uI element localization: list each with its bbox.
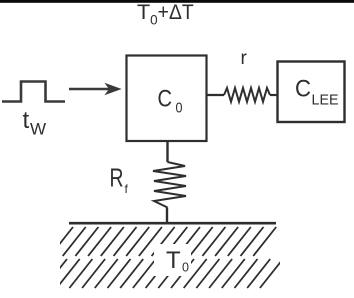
svg-text:T: T — [166, 247, 181, 274]
label CLEE — [295, 76, 339, 109]
wire C0 bottom to resistor Rf — [166, 141, 168, 162]
wire Rf to ground — [166, 208, 168, 224]
svg-text:C: C — [158, 86, 173, 113]
svg-text:R: R — [110, 163, 124, 193]
label Rf — [110, 163, 129, 197]
thermal capacitance C0 (detector) — [127, 56, 207, 142]
input arrow wire into C0 — [69, 84, 121, 95]
label tW (pulse width) — [23, 107, 47, 139]
svg-text:LEE: LEE — [312, 92, 339, 109]
svg-text:f: f — [125, 182, 129, 196]
svg-text:C: C — [295, 76, 311, 103]
wire C0 to resistor r — [207, 94, 224, 96]
resistor r (thermal link) — [224, 88, 270, 102]
label T0 (heat sink temperature) — [166, 247, 189, 275]
thermal capacitance CLEE — [278, 62, 345, 123]
ground (heat sink at T0, hatched) — [44, 223, 283, 288]
svg-text:0: 0 — [182, 261, 189, 275]
node T0+dT label (top node temperature) — [137, 0, 194, 28]
input pulse waveform — [2, 82, 65, 102]
resistor Rf (thermal resistance to heat sink) — [153, 162, 186, 208]
label C0 — [158, 86, 183, 117]
svg-text:W: W — [30, 120, 46, 139]
svg-text:r: r — [241, 48, 248, 69]
label r — [241, 48, 248, 69]
wire resistor r to CLEE — [270, 94, 277, 96]
svg-text:T0+ΔT: T0+ΔT — [137, 0, 194, 28]
svg-text:0: 0 — [176, 100, 183, 117]
svg-text:t: t — [23, 107, 30, 134]
